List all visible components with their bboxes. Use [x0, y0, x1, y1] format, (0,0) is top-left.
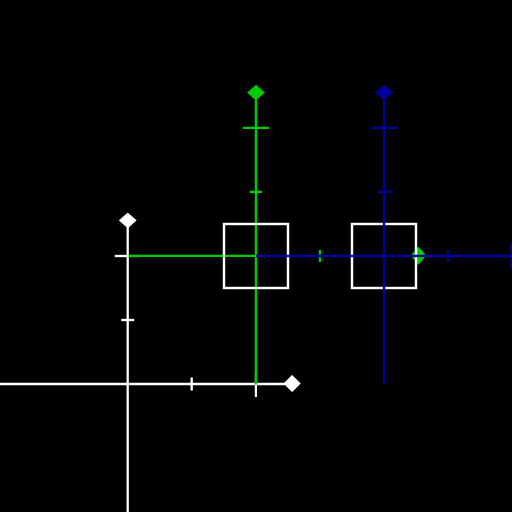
wire: blue vertical axis line: [383, 93, 385, 384]
diamond marker on green horizontal arm: [411, 247, 427, 265]
square box B2: [352, 224, 416, 288]
diamond marker at white horizontal arm right end: [284, 375, 301, 392]
short tick at -64 on white vertical arm: [121, 319, 134, 321]
long tick at -128 on white vertical arm: [115, 255, 141, 257]
wire: green horizontal axis line: [128, 255, 257, 257]
wire: white horizontal axis line: [0, 383, 292, 386]
green axis widget W3: [128, 93, 320, 385]
diamond marker on blue vertical arm top: [375, 85, 393, 101]
long tick at -128 on blue vertical arm: [371, 127, 397, 129]
square box B1: [224, 224, 288, 288]
wire: blue horizontal axis line: [256, 255, 512, 257]
wire: green vertical axis line: [255, 93, 257, 385]
wire: white vertical axis line: [127, 220, 129, 512]
white axis widget W1: [0, 220, 292, 512]
short tick at +64 on white horizontal arm: [191, 378, 193, 391]
diamond marker on white vertical arm top: [119, 213, 137, 229]
short tick at +64 on green horizontal arm: [319, 250, 321, 262]
short tick at +64 on blue horizontal arm: [447, 250, 449, 262]
long tick at +128 on blue horizontal arm: [510, 243, 512, 269]
blue axis widget W2: [256, 93, 512, 384]
long tick at +128 on white horizontal arm: [255, 371, 257, 397]
short tick at -64 on green vertical arm: [250, 191, 262, 193]
diamond marker on green vertical arm top: [247, 85, 265, 101]
long tick at -128 on green vertical arm: [243, 127, 269, 129]
short tick at -64 on blue vertical arm: [378, 191, 391, 193]
